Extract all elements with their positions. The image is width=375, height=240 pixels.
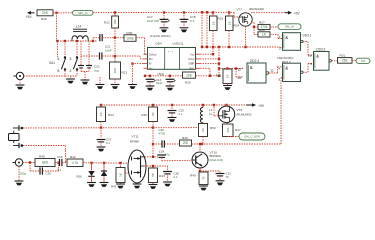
- svg-text:C19: C19: [57, 155, 63, 159]
- svg-text:10: 10: [308, 53, 312, 57]
- svg-text:20K: 20K: [42, 11, 49, 15]
- svg-text:12: 12: [237, 67, 241, 71]
- svg-text:10uF 50V: 10uF 50V: [147, 19, 159, 23]
- svg-text:VT7: VT7: [237, 7, 243, 11]
- svg-text:R48: R48: [182, 136, 188, 140]
- svg-text:DD2.4: DD2.4: [250, 59, 259, 63]
- svg-text:R47: R47: [235, 128, 241, 132]
- svg-text:&: &: [285, 35, 288, 40]
- svg-text:5: 5: [58, 69, 60, 73]
- svg-text:10K: 10K: [113, 68, 117, 73]
- svg-text:0.1: 0.1: [58, 168, 62, 172]
- svg-text:R43: R43: [159, 174, 165, 178]
- svg-text:0.1: 0.1: [190, 19, 195, 23]
- svg-text:+ - +: + - +: [168, 51, 174, 54]
- svg-text:0.1: 0.1: [106, 141, 110, 145]
- svg-text:R29: R29: [185, 81, 191, 85]
- svg-text:R40: R40: [39, 155, 45, 159]
- svg-text:+5V: +5V: [258, 104, 265, 108]
- svg-text:1u: 1u: [209, 112, 213, 116]
- svg-text:C20: C20: [46, 172, 52, 176]
- svg-text:R30: R30: [127, 31, 133, 35]
- svg-text:R25: R25: [216, 74, 222, 78]
- svg-text:SAL_ch: SAL_ch: [285, 25, 295, 29]
- svg-text:VD6: VD6: [76, 175, 82, 179]
- svg-text:&: &: [316, 54, 319, 59]
- svg-text:10E: 10E: [186, 73, 192, 77]
- svg-text:1K: 1K: [99, 112, 103, 116]
- svg-text:2: 2: [70, 69, 72, 73]
- svg-text:1K: 1K: [211, 21, 215, 25]
- svg-text:10K: 10K: [113, 19, 117, 24]
- svg-text:+5V: +5V: [26, 15, 33, 19]
- svg-text:IRLML6402: IRLML6402: [249, 7, 264, 11]
- svg-text:6E8: 6E8: [42, 161, 48, 165]
- svg-text:S/BP: S/BP: [188, 62, 194, 66]
- svg-text:2K: 2K: [151, 112, 155, 116]
- svg-text:R42: R42: [70, 155, 76, 159]
- svg-text:R31: R31: [340, 54, 346, 58]
- svg-text:R50: R50: [210, 126, 216, 130]
- svg-text:10uF: 10uF: [105, 49, 112, 53]
- svg-text:DD4: DD4: [156, 41, 162, 45]
- svg-text:3: 3: [70, 57, 72, 61]
- svg-text:CMout: CMout: [149, 52, 157, 56]
- svg-text:L14: L14: [76, 25, 82, 29]
- svg-text:Rin: Rin: [149, 57, 153, 61]
- svg-text:R23: R23: [218, 17, 224, 21]
- svg-text:COut: COut: [188, 57, 194, 61]
- svg-text:&: &: [250, 65, 253, 70]
- svg-text:R26: R26: [41, 17, 47, 21]
- svg-text:47p: 47p: [165, 152, 170, 156]
- svg-text:0.1: 0.1: [174, 175, 178, 179]
- svg-text:BF998: BF998: [130, 139, 139, 143]
- svg-text:Vin: Vin: [149, 66, 153, 70]
- svg-text:IN: IN: [149, 62, 152, 66]
- svg-text:Out: Out: [361, 59, 365, 63]
- svg-text:100p: 100p: [20, 172, 27, 176]
- svg-text:7n0: 7n0: [94, 69, 99, 73]
- svg-text:DD3.3: DD3.3: [316, 47, 325, 51]
- svg-text:R28: R28: [259, 28, 265, 32]
- svg-text:R46: R46: [141, 113, 147, 117]
- svg-text:9: 9: [310, 62, 312, 66]
- svg-text:75: 75: [202, 176, 206, 180]
- svg-text:4.7k: 4.7k: [72, 161, 78, 165]
- svg-text:R27: R27: [259, 20, 265, 24]
- svg-text:Vcc: Vcc: [190, 52, 195, 56]
- svg-text:10uF: 10uF: [156, 81, 163, 85]
- svg-text:SAL_C_NON: SAL_C_NON: [244, 135, 260, 139]
- svg-text:13: 13: [237, 76, 241, 80]
- svg-text:68: 68: [151, 173, 155, 177]
- svg-text:&: &: [285, 65, 288, 70]
- svg-text:R21: R21: [122, 71, 128, 75]
- svg-text:DD3.2: DD3.2: [282, 60, 291, 64]
- svg-text:R44: R44: [108, 113, 114, 117]
- svg-text:1K: 1K: [226, 74, 230, 78]
- svg-text:R24: R24: [234, 24, 240, 28]
- svg-text:100E: 100E: [126, 36, 133, 40]
- svg-text:SA1: SA1: [49, 61, 55, 65]
- svg-text:NET_ch: NET_ch: [78, 11, 88, 15]
- svg-text:+5V: +5V: [294, 12, 301, 16]
- svg-text:C24: C24: [159, 149, 165, 153]
- svg-text:6: 6: [58, 57, 60, 61]
- svg-text:VT11: VT11: [132, 135, 139, 139]
- svg-text:2K: 2K: [201, 128, 205, 132]
- svg-text:R49: R49: [190, 174, 196, 178]
- svg-text:0.1: 0.1: [179, 112, 183, 116]
- svg-text:4700: 4700: [159, 132, 166, 136]
- svg-text:200: 200: [183, 141, 189, 145]
- svg-text:+5(a): +5(a): [157, 72, 164, 76]
- svg-text:75: 75: [226, 175, 230, 179]
- svg-text:IRLML6402: IRLML6402: [237, 112, 252, 116]
- svg-text:11: 11: [271, 69, 274, 73]
- svg-text:1K: 1K: [227, 21, 231, 25]
- svg-text:LM1011: LM1011: [173, 41, 184, 45]
- svg-text:1K: 1K: [119, 173, 123, 177]
- svg-text:DD3.1: DD3.1: [303, 33, 312, 37]
- svg-text:(Fun00, IDNdv): (Fun00, IDNdv): [150, 34, 171, 38]
- svg-text:470: 470: [226, 127, 230, 132]
- svg-text:(Mod-K24): (Mod-K24): [210, 158, 224, 162]
- svg-text:BAL: BAL: [189, 66, 194, 70]
- svg-text:25E: 25E: [342, 59, 348, 63]
- svg-text:R22: R22: [104, 21, 110, 25]
- svg-text:R41: R41: [111, 185, 117, 189]
